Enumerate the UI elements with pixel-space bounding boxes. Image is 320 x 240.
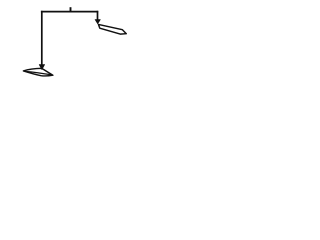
board P1 (bottom-left slanted plate) bbox=[23, 68, 53, 76]
wire: top horizontal line bbox=[41, 11, 98, 13]
tick mark on top line bbox=[70, 7, 72, 11]
background bbox=[0, 0, 150, 88]
board P2 (top-right slanted plate) bbox=[98, 24, 126, 34]
arrowhead of left arrow (points down at board P1) bbox=[39, 65, 45, 70]
wire: left vertical line bbox=[41, 11, 43, 65]
arrowhead of right arrow (points down at board P2) bbox=[95, 20, 101, 25]
board P1 near-edge inner line bbox=[27, 72, 52, 75]
wire: right vertical line bbox=[97, 11, 99, 20]
